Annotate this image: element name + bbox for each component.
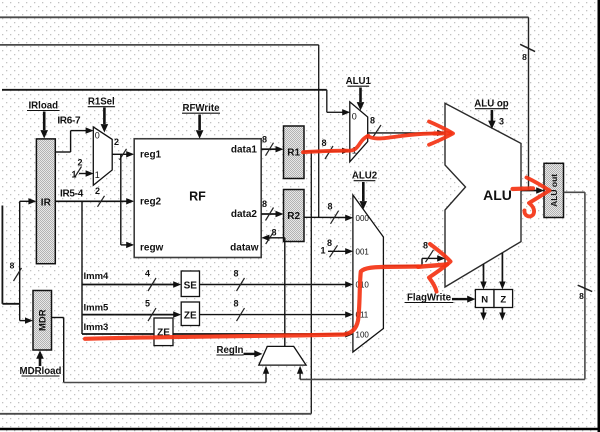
svg-text:8: 8 [327,202,332,212]
red highlight: Imm3 path through ALU2 mux to ALU input b with arrow [85,267,419,339]
svg-text:8: 8 [579,291,584,301]
svg-text:ALU2: ALU2 [352,171,377,182]
svg-text:8: 8 [262,199,267,209]
svg-text:001: 001 [356,247,370,256]
svg-text:2: 2 [114,137,119,147]
register R1 [284,126,305,179]
register MDR [33,291,52,351]
svg-text:Imm3: Imm3 [84,322,109,333]
ALU body [445,103,521,287]
flag register Z [494,290,513,308]
svg-text:ALU1: ALU1 [346,76,372,87]
svg-text:IRload: IRload [28,100,58,111]
svg-text:ZE: ZE [184,310,197,321]
svg-text:0: 0 [352,111,357,121]
bus wire top (memory data bus) [0,17,529,189]
wire Imm3 to mux input 100 [82,331,353,337]
svg-text:8: 8 [233,269,238,279]
svg-text:Z: Z [500,294,506,305]
wire into IR with arrowhead [20,198,37,204]
svg-text:5: 5 [145,299,150,309]
svg-text:8: 8 [233,299,238,309]
svg-text:data2: data2 [231,209,258,220]
branch wire to regw [121,154,134,248]
svg-text:data1: data1 [231,144,258,155]
flag wire to Z [499,253,505,290]
R1 output wire to ALU1 mux input 1 (8 bits) [304,138,350,159]
junction wire from R1 output down to bottom bus [0,152,311,414]
svg-text:MDR: MDR [38,309,49,331]
svg-text:reg2: reg2 [140,196,162,207]
sign-extend box SE [181,271,199,297]
red highlight: ALU1 mux output to ALU input a with arrow [368,133,437,138]
svg-text:R1Sel: R1Sel [88,97,115,108]
svg-text:1: 1 [71,170,76,180]
svg-text:8: 8 [321,138,326,148]
svg-text:regw: regw [140,242,164,253]
svg-text:3: 3 [499,117,504,127]
R2 output wire to ALU2 mux input 000 (8 bits) [304,202,353,224]
ZE output wire (8 bits) [200,299,354,322]
svg-text:dataw: dataw [230,242,259,253]
svg-text:2: 2 [95,186,100,196]
svg-text:Imm5: Imm5 [84,303,110,314]
register file RF [134,139,261,258]
red highlight: R1 output to ALU1 mux [303,136,369,152]
width 4 slash [145,269,156,292]
width label 2 with slash (IR5-4) [95,186,105,207]
ALUout feedback wire to RegIn mux (8 bits) [297,192,585,379]
svg-text:IR5-4: IR5-4 [60,189,84,200]
constant 1 input to ALU2 mux input 001 (8 bits) [320,238,353,257]
svg-text:8: 8 [522,52,527,62]
svg-text:RF: RF [189,190,206,204]
N output arrow [480,308,486,321]
wire dataw from RegIn mux (8 bits) [261,228,284,245]
svg-text:N: N [481,294,488,305]
red highlight: ALU output to ALUout with arrow [513,186,534,191]
svg-text:MDRload: MDRload [20,366,62,377]
flag wire to N [480,264,486,290]
svg-text:1: 1 [95,170,100,180]
mux R1Sel (2-to-1) [93,127,112,185]
svg-text:ALU: ALU [483,187,512,203]
svg-text:8: 8 [271,228,276,238]
svg-text:2: 2 [77,158,82,168]
register R2 [284,190,305,242]
register ALUout [544,163,564,217]
svg-text:000: 000 [356,214,370,223]
bus width slash 8 (top right vertical) [520,44,535,62]
svg-text:8: 8 [327,238,332,248]
width 5 slash [145,299,156,322]
svg-text:FlagWrite: FlagWrite [407,292,452,303]
RegIn control arrow [244,350,263,357]
vertical wire feeding IR and MDR [19,201,21,320]
wire Imm4 to SE (4 bits) [82,281,181,287]
bus wire second (to R2 output) [0,45,319,217]
FlagWrite control arrow [452,296,475,303]
svg-text:SE: SE [184,280,198,291]
wire data1 to R1 (8 bits) [261,134,283,155]
svg-text:reg1: reg1 [140,150,162,161]
svg-text:IR: IR [41,198,52,209]
mux ALU1 (2-to-1) [350,102,368,162]
wire IR5-4 to reg2 (2 bits) [55,198,134,204]
svg-text:8: 8 [10,261,15,271]
svg-text:1: 1 [320,246,325,256]
zero-extend box ZE [181,302,199,326]
svg-text:4: 4 [145,269,150,279]
ALUop control arrow (3 bits) [488,110,504,129]
constant 1 input to mux (2 bits) [71,158,93,180]
svg-text:0: 0 [95,131,100,141]
zero-extend box ZE (Imm3) [154,318,173,346]
ALU1 mux output wire to ALU input a (8 bits) [368,116,446,138]
svg-text:R2: R2 [287,211,300,222]
Z output arrow [499,308,505,321]
mux output wire to reg1 (2 bits) [112,137,134,160]
R1Sel control arrow [101,108,109,133]
RegIn mux output wire up to dataw [284,238,286,347]
right border [597,0,600,432]
RFWrite control arrow [196,115,204,139]
svg-text:RFWrite: RFWrite [183,103,221,114]
MDRload control arrow [36,350,44,366]
svg-text:8: 8 [262,134,267,144]
register IR [36,139,55,264]
svg-text:Imm4: Imm4 [84,271,110,282]
IRload control arrow [40,112,48,139]
svg-text:RegIn: RegIn [217,345,244,356]
flag register N [475,290,494,308]
width slash 8 (feedback) [578,285,593,301]
svg-text:100: 100 [356,330,370,339]
left edge stub wire to IR/MDR [2,206,19,304]
ALU2 control arrow [360,182,368,210]
wire IR6-7 to mux input 0 [55,127,93,152]
wire Imm5 to ZE (5 bits) [82,311,181,317]
bus width slash 8 (IR/MDR feed) [10,261,22,282]
ALU1 control arrow [357,88,365,111]
bus wire third (to ALU1 mux input 0) [2,90,350,116]
mux ALU2 (5-to-1) [353,195,384,352]
branch wire to immediate fields [81,201,83,334]
svg-text:010: 010 [356,281,370,290]
svg-text:8: 8 [423,241,428,251]
svg-text:ALU op: ALU op [474,99,509,110]
svg-text:IR6-7: IR6-7 [57,116,81,127]
MDR output wire to RegIn mux [52,318,270,383]
ALU2 mux output wire to ALU input b (8 bits) [383,241,445,266]
svg-text:8: 8 [370,116,375,126]
bottom border [0,428,600,431]
wire into MDR with arrowhead [20,317,33,323]
mux RegIn (2-to-1, inputs at bottom) [259,346,306,365]
svg-text:R1: R1 [287,148,300,159]
SE output wire (8 bits) [200,269,354,292]
ALU output wire to ALUout [521,187,544,193]
wire data2 to R2 (8 bits) [261,199,283,221]
